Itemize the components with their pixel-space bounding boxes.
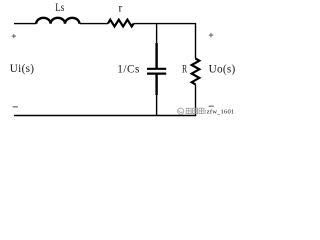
wire from r to top-right corner and down to R bbox=[134, 24, 196, 59]
minus sign input bbox=[13, 106, 18, 108]
inductor Ls bbox=[36, 18, 79, 24]
svg-text:r: r bbox=[119, 2, 123, 14]
wire top-left input lead bbox=[14, 23, 36, 25]
capacitor C bottom lead bbox=[155, 75, 157, 96]
resistor R zigzag bbox=[192, 59, 200, 85]
resistor r bbox=[108, 20, 134, 27]
plus sign output bbox=[209, 33, 213, 37]
wire R bottom lead bbox=[195, 84, 197, 115]
minus sign output bbox=[209, 105, 214, 107]
wire between Ls and r bbox=[80, 23, 108, 25]
wire capacitor bottom to bottom rail bbox=[156, 95, 158, 116]
capacitor C bottom plate bbox=[147, 72, 166, 74]
plus sign input bbox=[12, 34, 16, 38]
svg-text:Uo(s): Uo(s) bbox=[209, 63, 236, 75]
watermark glyph block 3 bbox=[199, 108, 204, 113]
svg-text:R: R bbox=[182, 63, 188, 75]
watermark glyph block 2 bbox=[193, 108, 198, 113]
wire bottom rail bbox=[14, 115, 196, 117]
capacitor C top plate bbox=[147, 68, 166, 70]
watermark glyph block 1 bbox=[186, 108, 191, 113]
svg-text:Ui(s): Ui(s) bbox=[10, 63, 35, 75]
svg-text:1/Cs: 1/Cs bbox=[117, 63, 140, 75]
svg-text::zfw_1601: :zfw_1601 bbox=[205, 108, 235, 115]
capacitor C top lead bbox=[155, 43, 157, 68]
watermark icon bbox=[178, 108, 184, 114]
svg-text:Ls: Ls bbox=[55, 2, 64, 14]
node junction at capacitor branch bbox=[156, 24, 158, 44]
